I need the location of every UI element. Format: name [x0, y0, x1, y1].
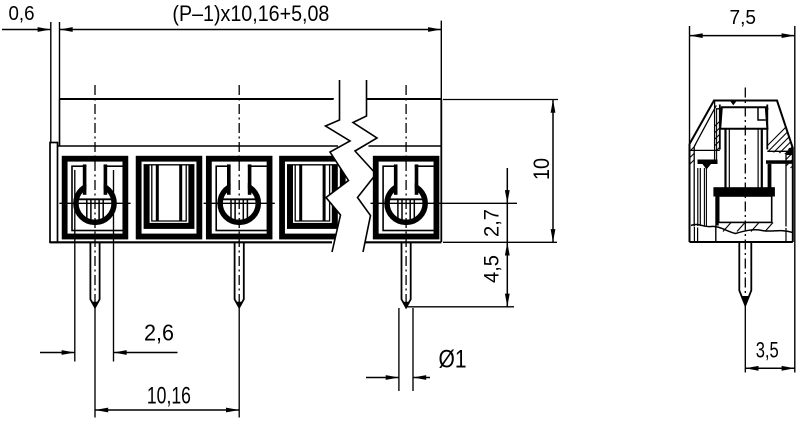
- cell 1 chimney left wall: [83, 164, 87, 194]
- extension line 2,6 left: [74, 170, 76, 362]
- cell 5 chimney right wall: [415, 164, 419, 194]
- cell 1 screw slot top edge: [79, 198, 111, 200]
- break line right: [353, 80, 377, 252]
- terminal cell 3 (screw clamp, front): [206, 156, 273, 240]
- break gap white mask: [326, 80, 378, 252]
- arrowhead 3,5 left: [745, 366, 758, 371]
- section hatching left wall: [676, 95, 800, 165]
- right wall below break: [785, 228, 787, 241]
- side left wall inner line: [693, 147, 695, 227]
- body left face upper: [59, 99, 61, 146]
- arrowhead 3,5 right: [782, 366, 795, 371]
- side view housing outline: [690, 101, 793, 243]
- cell 5 horizontal centerline: [371, 202, 442, 204]
- svg-text:3,5: 3,5: [756, 338, 779, 363]
- body top edge (left of break): [60, 98, 340, 100]
- pin 2 tip: [236, 302, 242, 308]
- extension line body top right: [443, 99, 558, 101]
- clamp right wing: [766, 160, 793, 164]
- terminal cell 2 (wire entry, front): [136, 156, 203, 240]
- break line left: [326, 80, 351, 252]
- cell 4 left contact bar: [299, 165, 302, 221]
- cell 4 right contact bar: [323, 165, 326, 221]
- cell 3 screw slot top edge: [223, 198, 255, 200]
- centerline pole 1: [94, 85, 96, 307]
- extension line pin tip right: [407, 306, 515, 308]
- arrowhead pitch dim right: [428, 27, 441, 32]
- cell 5 screw circle: [387, 184, 425, 222]
- cell 3 screw slot line: [242, 199, 244, 221]
- body ledge line (left of break): [57, 145, 338, 147]
- right cavity thick wall: [768, 164, 772, 196]
- svg-text:4,5: 4,5: [480, 255, 504, 283]
- cell 1 inner frame: [72, 166, 123, 230]
- cell 3 inner frame: [216, 166, 267, 230]
- arrowhead 10,16 left: [95, 408, 108, 413]
- terminal cell 4 (wire entry, front): [279, 156, 346, 240]
- cell 2 left contact bar: [156, 165, 159, 221]
- body right face: [440, 99, 442, 242]
- svg-text:2,6: 2,6: [144, 320, 174, 346]
- cell 5 screw slot top edge: [390, 198, 422, 200]
- dimension line diameter right tail: [413, 377, 430, 379]
- side pin tip: [742, 296, 750, 306]
- screw slot notch on roof: [730, 100, 738, 105]
- arrowhead 10 bottom: [551, 229, 556, 242]
- dimension line 2,6 right tail: [114, 352, 178, 354]
- arrowhead 0,6 left: [38, 27, 51, 32]
- terminal cell 5 (screw clamp, front): [373, 156, 440, 240]
- dimension line 2,6 left tail: [40, 352, 75, 354]
- arrowhead 10 top: [551, 100, 556, 113]
- cell 5 screw slot line: [409, 199, 411, 221]
- side view centerline: [744, 88, 746, 306]
- solder pin 2: [235, 242, 244, 307]
- svg-text:2,7: 2,7: [480, 209, 504, 237]
- hatching above wavy line: [723, 223, 731, 232]
- cell 3 horizontal centerline: [204, 202, 275, 204]
- side right wall inner line: [785, 154, 787, 227]
- cell 5 chimney left wall: [394, 164, 398, 194]
- cell 3 screw circle: [220, 184, 258, 222]
- side roof inner edge: [716, 108, 769, 110]
- cell 3 screw slot line: [234, 199, 236, 221]
- svg-text:0,6: 0,6: [9, 3, 35, 25]
- dimension line 10,16: [95, 409, 239, 411]
- cell 4 thin inner liner: [295, 165, 329, 221]
- screw recess left wall: [719, 105, 721, 150]
- cell 3 chimney interior: [231, 163, 248, 198]
- side right ledge: [767, 150, 788, 152]
- svg-text:10,16: 10,16: [147, 383, 191, 410]
- lower cavity left thick wall: [715, 196, 718, 226]
- left wall line below break 2: [697, 228, 699, 242]
- left end wall 0,6: [50, 143, 58, 243]
- cell 5 screw slot line: [397, 199, 399, 221]
- cell 2 inner U opening: [150, 165, 189, 223]
- material break wavy line: [691, 225, 793, 234]
- extension line 10,16 left: [94, 308, 96, 418]
- screw shank walls: [724, 129, 726, 189]
- screw recess right wall: [766, 105, 768, 150]
- extension line 2,6 right: [113, 170, 115, 362]
- extension line side pin center: [744, 306, 746, 373]
- arrowhead 4,5 top: [505, 242, 510, 255]
- cell 1 chimney interior: [86, 163, 103, 198]
- svg-text:7,5: 7,5: [730, 7, 757, 29]
- side left ledge: [690, 149, 720, 151]
- arrowhead pitch dim left: [60, 27, 73, 32]
- dimension line 3,5: [745, 367, 795, 369]
- cell 2 inner U wall: [144, 165, 195, 229]
- extension line body right face: [440, 21, 442, 99]
- cell 3 screw slot line: [230, 199, 232, 221]
- shank inner wall right: [757, 129, 759, 189]
- centerline pole 3: [405, 85, 407, 307]
- clamp left wing: [698, 160, 718, 165]
- arrowhead 2,6 right: [114, 350, 127, 355]
- cell 2 inner top edge: [144, 164, 195, 166]
- dimension line 7,5: [690, 35, 795, 37]
- cell 5 screw slot line: [413, 199, 415, 221]
- top dimension line (left of 0,6): [2, 29, 51, 31]
- svg-text:Ø1: Ø1: [439, 346, 467, 374]
- cell 1 screw circle: [76, 184, 114, 222]
- left wall vertical edge: [714, 102, 716, 161]
- clamp body bottom plate: [713, 187, 775, 196]
- dimension line diameter left tail: [366, 377, 399, 379]
- shank inner wall left: [728, 129, 730, 189]
- body ledge line (right of break): [369, 145, 442, 147]
- cell 2 thin inner liner: [152, 165, 186, 221]
- extension line side right face: [794, 26, 796, 373]
- extension line pin diameter left: [398, 308, 400, 391]
- cell 1 screw slot line: [102, 199, 104, 221]
- cell 2 right contact bar: [179, 165, 182, 221]
- body bottom edge (right of break): [361, 241, 441, 243]
- svg-text:10: 10: [529, 158, 554, 180]
- dimension line 10: [552, 100, 554, 243]
- cell 1 chimney right wall: [104, 164, 108, 194]
- arrowhead 4,5 bottom: [505, 294, 510, 307]
- arrowhead 2,6 left: [62, 350, 75, 355]
- cell 4 inner U opening: [293, 165, 332, 223]
- lower cavity box: [719, 196, 772, 222]
- cell 3 chimney right wall: [248, 164, 252, 194]
- side left wall inner slope: [694, 106, 716, 147]
- extension line body left face: [59, 22, 61, 99]
- arrowhead diameter right: [413, 375, 426, 380]
- extension line side left face: [689, 26, 691, 144]
- pin 3 tip: [403, 302, 409, 308]
- cell 1 screw slot line: [86, 199, 88, 221]
- screw slot notch: [758, 107, 766, 120]
- top dimension line (P-1)x10,16+5,08: [60, 29, 442, 31]
- cell 3 screw slot line: [246, 199, 248, 221]
- body bottom edge (left of break): [50, 241, 332, 243]
- pin 1 tip: [92, 302, 98, 308]
- left cavity wall line 3: [703, 168, 705, 226]
- section hatching right wall: [745, 98, 800, 168]
- solder pin 1: [90, 242, 99, 307]
- extension line body bottom right: [443, 241, 557, 243]
- extension line pin diameter right: [412, 308, 414, 391]
- solder pin (side view): [739, 242, 751, 306]
- left cavity wall line: [697, 168, 699, 226]
- cell 1 screw slot line: [98, 199, 100, 221]
- cell 1 screw slot line: [90, 199, 92, 221]
- cavity wall below break: [715, 226, 717, 242]
- arrowhead diameter left: [386, 375, 399, 380]
- dimension line 2,7 / 4,5: [506, 168, 508, 307]
- extension line left wall outer face: [50, 22, 52, 143]
- cell 5 chimney interior: [398, 163, 415, 198]
- left wall line below break: [693, 227, 695, 241]
- svg-text:(P–1)x10,16+5,08: (P–1)x10,16+5,08: [172, 1, 329, 26]
- screw head (section): [720, 107, 767, 129]
- solder pin 3: [402, 242, 411, 307]
- left cavity wall line 2: [699, 168, 701, 226]
- body top edge (right of break): [367, 98, 442, 100]
- extension line 10,16 right: [238, 308, 240, 418]
- cell 5 screw slot line: [401, 199, 403, 221]
- cell 5 inner frame: [383, 166, 434, 230]
- cell 3 chimney left wall: [227, 164, 231, 194]
- left wall vertical edge inner: [716, 109, 718, 161]
- cell 1 horizontal centerline: [59, 202, 130, 204]
- arrowhead 10,16 right: [226, 408, 239, 413]
- left cavity wall line 4: [705, 168, 707, 226]
- extension line screw axis right: [441, 202, 517, 204]
- centerline pole 2: [238, 85, 240, 307]
- arrowhead 2,7 top: [505, 190, 510, 203]
- cell 4 inner top edge: [287, 164, 338, 166]
- cell 4 inner U wall: [287, 165, 338, 229]
- terminal cell 1 (screw clamp, front): [62, 156, 129, 240]
